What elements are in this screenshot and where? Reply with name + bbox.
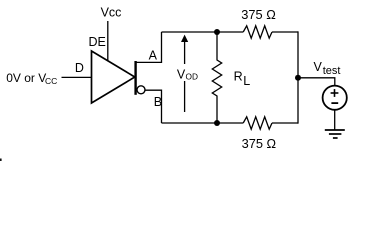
label Vtest [314,60,341,77]
voltage source V1 circle [323,86,347,110]
wire bottom rail left [162,122,244,124]
wire Vcc/DE enable [107,21,109,61]
svg-text:V: V [314,60,323,74]
svg-text:375 Ω: 375 Ω [242,136,277,151]
svg-text:DE: DE [89,35,106,49]
svg-text:0V or V: 0V or V [6,71,46,85]
resistor 375 ohm top [243,26,272,38]
inverter bubble on B output [137,86,145,94]
svg-text:L: L [243,74,250,88]
wire bottom rail right [272,122,298,124]
wire B to bottom rail [145,90,161,123]
corner artifact mark [0,159,2,162]
junction dot Vtest node [295,75,301,81]
label VOD [177,67,198,81]
wire source to ground [334,110,336,130]
wire top rail right [272,31,298,33]
minus sign [331,102,338,104]
svg-text:CC: CC [45,76,57,86]
wire A to top rail [136,32,162,62]
junction dot bottom RL [214,120,220,126]
svg-text:R: R [234,69,243,83]
junction dot top RL [214,29,220,35]
svg-text:test: test [323,65,341,77]
svg-text:Vcc: Vcc [101,6,122,20]
label 0V or Vcc [6,71,57,86]
label RL [234,69,251,88]
resistor RL vertical [212,32,221,123]
svg-text:OD: OD [186,71,198,81]
wire top rail left [162,31,244,33]
plus sign [331,89,339,97]
resistor 375 ohm bottom [243,117,272,129]
svg-text:375 Ω: 375 Ω [241,7,276,22]
wire right rail [297,31,299,123]
arrow VOD [181,35,188,112]
wire D input [62,76,92,78]
ground [325,130,345,138]
svg-text:D: D [75,61,84,75]
wire to Vtest source [298,78,335,86]
wire output bar at triangle tip [134,61,136,95]
svg-text:A: A [149,49,158,63]
op-amp driver U1 triangle [92,51,135,103]
